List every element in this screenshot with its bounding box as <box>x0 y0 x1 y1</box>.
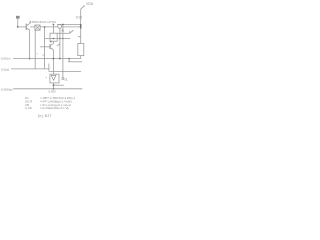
svg-text:0.000(a): 0.000(a) <box>1 88 13 92</box>
component X-box X1 <box>35 25 40 30</box>
svg-text:4: 4 <box>42 55 44 57</box>
resistor R1 box <box>50 33 57 41</box>
node R1 bottom speck <box>50 41 52 43</box>
wire tick right <box>78 36 81 38</box>
wire Q2 base H3 <box>40 46 50 48</box>
svg-text:(b) BJT: (b) BJT <box>38 114 52 118</box>
wire Y33 row <box>57 32 70 34</box>
svg-text:C.AS: C.AS <box>25 106 32 110</box>
wire R1 bottom to Q2 collector <box>52 41 54 43</box>
wire Q2 emitter down <box>52 50 54 74</box>
node H7 dots <box>53 58 55 60</box>
component circle S1 <box>58 25 62 29</box>
wire V7 circle to Q2 <box>59 28 61 58</box>
node V5 top <box>53 24 55 26</box>
wire H1 rightmost <box>62 26 81 28</box>
wire V6 long <box>62 24 64 77</box>
wire H1 right of X-box <box>40 26 58 28</box>
wire R2 bottom <box>80 56 82 59</box>
svg-text:0.00(+): 0.00(+) <box>1 57 11 61</box>
svg-text:= E.ASE(LAW)+0.1 Vp: = E.ASE(LAW)+0.1 Vp <box>40 106 70 110</box>
svg-text:N2: N2 <box>61 29 65 32</box>
svg-text:≥: ≥ <box>46 76 48 79</box>
wire V3 <box>44 27 46 69</box>
wire H1 mid <box>30 26 35 28</box>
node V6 top <box>62 24 64 26</box>
svg-text:0.00: 0.00 <box>76 15 82 19</box>
svg-text:VDD: VDD <box>86 2 94 6</box>
probe DL circle <box>62 78 64 80</box>
wire H1 left <box>18 26 26 28</box>
wire V2 from X-box bottom <box>34 30 36 69</box>
svg-text:0.05V: 0.05V <box>49 89 56 93</box>
node VDD rail junction <box>80 24 82 29</box>
wire V7 hook <box>57 44 60 46</box>
wire H8 stub <box>68 59 70 62</box>
node rail junction <box>53 88 55 90</box>
wire D1 bottom stub <box>53 83 55 89</box>
VDD arrow <box>81 6 85 9</box>
node V3 top <box>44 26 46 28</box>
node H9 junction <box>53 84 55 86</box>
wire H7 long <box>13 58 81 60</box>
transistor Q2 <box>50 44 53 50</box>
wire H2 row <box>45 38 71 40</box>
node input junction <box>17 26 19 28</box>
svg-text:x: x <box>37 54 39 56</box>
resistor R2 box <box>78 44 84 56</box>
switch blade <box>70 31 73 34</box>
wire VDD drop V9 <box>80 9 82 44</box>
wire V8 <box>48 64 50 72</box>
node H2 dots <box>53 38 55 40</box>
wire Q1 emitter down <box>29 30 31 58</box>
wire H4 <box>11 68 49 70</box>
wire H8 <box>68 61 82 63</box>
wire V5 <box>52 24 54 33</box>
diode D1 box <box>50 74 59 83</box>
wire H1b upper <box>57 23 81 25</box>
switch tick <box>69 31 71 34</box>
wire bottom rail <box>13 88 82 90</box>
input terminal square <box>16 16 20 19</box>
wire H6 <box>49 70 81 72</box>
wire H9 <box>54 84 64 86</box>
svg-text:0.R00=4047+4TH4: 0.R00=4047+4TH4 <box>30 20 57 24</box>
svg-text:0.0(a): 0.0(a) <box>1 68 9 72</box>
wire input stem <box>17 19 19 27</box>
node emitter junction <box>29 58 31 60</box>
transistor Q1 <box>26 21 30 30</box>
svg-text:DL: DL <box>65 78 69 82</box>
